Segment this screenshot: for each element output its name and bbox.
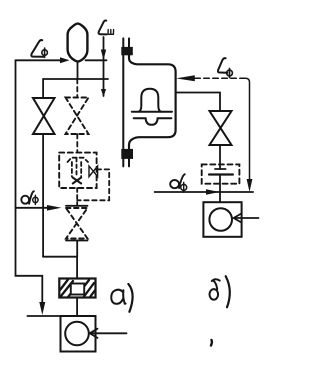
float chamber outline xyxy=(129,55,176,148)
pump P1 suction arrow from right xyxy=(90,332,127,334)
d_f pointer line right with arrow xyxy=(155,191,254,193)
vessel B1 (surge vessel, scheme a) xyxy=(68,24,88,62)
inner dashed apparatus (gas relief device) xyxy=(68,158,89,162)
pump P1 (box with circle) xyxy=(61,316,96,352)
flange top (black) xyxy=(121,47,133,55)
dash-dot dimension line L_f right with down arrow xyxy=(195,77,245,79)
dimension line L_sh with two down arrows xyxy=(103,37,105,96)
d_f pointer line with right arrow xyxy=(16,207,53,209)
wire: junction from valve V1 down to center stem xyxy=(43,257,77,279)
stem tee inside box xyxy=(219,164,221,169)
wire: chamber outlet to valve V4 xyxy=(176,93,220,112)
label d_f right xyxy=(170,180,179,188)
label a) xyxy=(111,290,123,304)
dashed L-shaped bypass extension xyxy=(77,169,109,200)
label L_f right xyxy=(218,58,227,73)
pump P2 suction arrow from right xyxy=(234,217,259,219)
pump P2 (box with circle) xyxy=(203,202,241,237)
pipe column (double line riser) xyxy=(122,38,124,166)
wire: L_f feed line with arrow into vessel xyxy=(16,59,63,61)
flange bottom (black) xyxy=(121,149,133,159)
wire: line2 branch header xyxy=(43,78,108,80)
mini valve (side branch) xyxy=(89,166,93,177)
valve V4 (solid gate valve right) xyxy=(210,111,232,145)
stray comma mark xyxy=(210,340,213,346)
chamber pointer arrow (level mark) xyxy=(176,75,195,81)
label L_f left xyxy=(31,40,43,57)
wire: left vertical run xyxy=(16,60,43,303)
label L_sh dimension xyxy=(99,21,107,35)
wire: line1 from vessel to dimension line xyxy=(86,59,107,61)
wire: stem through orifice down to pump xyxy=(76,298,78,317)
arrow down onto bottom header xyxy=(39,302,45,315)
dashed enclosure box xyxy=(59,153,96,188)
orifice / hatched flow element xyxy=(59,279,95,298)
wire: vessel bottom stem xyxy=(77,62,79,80)
valve V1 (solid gate valve) xyxy=(42,79,44,98)
liquid level line xyxy=(132,111,172,113)
label b) xyxy=(212,279,220,281)
wide plate inside box xyxy=(209,173,233,175)
lower level line with meniscus dip xyxy=(134,118,172,125)
wire: stem from restrictor to pump P2 xyxy=(219,175,221,203)
label d_f left xyxy=(21,196,29,204)
bottom header line xyxy=(27,315,60,317)
dashed stem from box bottom to valve V3 xyxy=(76,188,78,205)
float symbol (inverted U with feet) xyxy=(138,89,161,112)
valve V2 (dashed gate valve) xyxy=(76,79,78,97)
valve V3 (dashed gate valve lower) xyxy=(66,205,88,207)
x mark under apparatus xyxy=(73,178,82,184)
dashed restrictor box xyxy=(202,164,240,183)
